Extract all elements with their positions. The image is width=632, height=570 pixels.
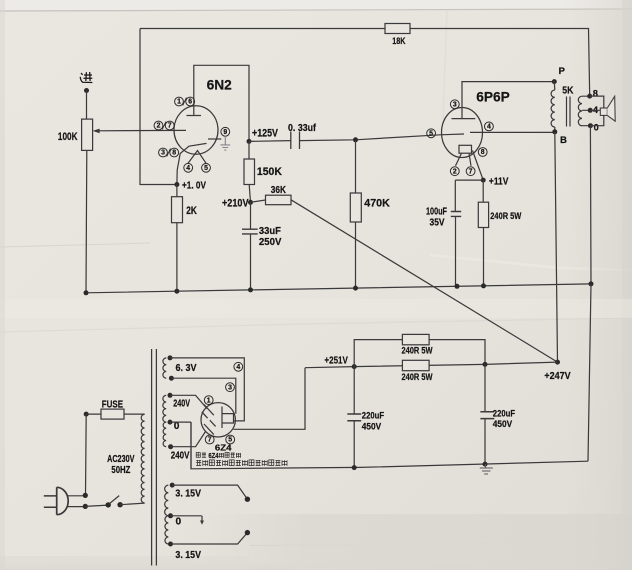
wire +125V node to coupling cap xyxy=(249,140,291,143)
wire 240V top to 6Z4 anode pin 1 xyxy=(170,395,207,408)
OPT node B xyxy=(552,129,557,134)
svg-text:33uF: 33uF xyxy=(259,226,281,237)
capacitor 0.33uf xyxy=(291,132,300,150)
transformer core xyxy=(152,349,157,566)
svg-text:2K: 2K xyxy=(186,205,197,217)
svg-text:220uF: 220uF xyxy=(362,410,385,421)
240V winding (HT secondary) xyxy=(168,393,173,398)
svg-text:150K: 150K xyxy=(257,166,282,178)
svg-text:250V: 250V xyxy=(259,237,282,248)
3.15V heater winding xyxy=(170,483,175,488)
wire +210V to 36K xyxy=(251,200,266,202)
wire: NFB left drop to 6N2 cathode xyxy=(140,29,177,185)
resistor 240R 5W (lower, on rail) xyxy=(402,360,429,370)
wire 100uF to ground bus xyxy=(455,216,457,286)
capacitor 220uF 450V (first) xyxy=(353,367,355,414)
svg-text:+210V: +210V xyxy=(222,197,249,209)
6N2 cathode to +1.0V node xyxy=(177,143,207,184)
svg-text:+11V: +11V xyxy=(489,176,509,187)
resistor 2K xyxy=(172,197,183,223)
input label (jin) xyxy=(80,72,92,83)
pin label 3 xyxy=(226,383,235,392)
ground return right edge xyxy=(588,284,591,461)
resistor 470K xyxy=(350,193,361,222)
svg-text:5: 5 xyxy=(429,131,433,138)
wire +11V to 100uF xyxy=(455,180,483,211)
pin label 4 xyxy=(234,362,243,371)
wire 240V center tap 0 to ground rail xyxy=(170,422,191,469)
svg-text:2: 2 xyxy=(157,123,161,130)
svg-text:6P6P: 6P6P xyxy=(476,88,510,104)
6Z4 anode strokes (upper diode) xyxy=(202,405,214,419)
svg-text:1: 1 xyxy=(177,99,181,106)
svg-text:100uF: 100uF xyxy=(426,206,447,217)
tube 6Z4 envelope xyxy=(201,403,235,437)
svg-text:6N2: 6N2 xyxy=(207,77,232,93)
ground symbol at 6N2 pin 9 xyxy=(220,136,230,150)
tube 6N2 envelope xyxy=(174,106,218,154)
node: junction right of lower 240R xyxy=(483,362,488,367)
svg-text:6: 6 xyxy=(188,99,192,106)
svg-text:35V: 35V xyxy=(430,218,445,229)
resistor 240R 5W (upper) xyxy=(402,334,429,344)
rectifier filament riser to +251V xyxy=(234,368,306,430)
6P6P screen wire to OPT B xyxy=(470,131,555,133)
svg-text:7: 7 xyxy=(168,123,172,130)
svg-text:450V: 450V xyxy=(362,420,382,431)
pin label 5 xyxy=(427,129,436,138)
capacitor 33uF 250V xyxy=(242,229,258,234)
ground bus (main horizontal) xyxy=(86,284,591,293)
6.3V winding xyxy=(168,355,173,360)
pin labels 3/8 xyxy=(159,148,168,157)
pin labels 2/7 xyxy=(154,121,163,130)
svg-text:AC230V: AC230V xyxy=(107,454,135,465)
svg-text:470K: 470K xyxy=(364,197,390,209)
node +11V xyxy=(481,178,486,183)
wire +125V to 150K xyxy=(248,141,250,159)
pot wiper arrow to 6N2 grid xyxy=(99,129,187,131)
svg-text:B: B xyxy=(560,135,567,146)
wire +210V to 33uF xyxy=(250,202,252,229)
svg-text:6. 3V: 6. 3V xyxy=(176,363,197,374)
wire 240R to ground bus xyxy=(483,228,485,286)
capacitor 100uF 35V xyxy=(451,212,461,217)
pin label 7 xyxy=(205,435,214,444)
svg-text:4: 4 xyxy=(236,364,240,371)
svg-text:4: 4 xyxy=(186,165,190,172)
node +247V xyxy=(555,360,560,365)
6N2 plate and wire to +125V node xyxy=(187,65,250,141)
wire 240V bottom to 6Z4 anode pin 7 xyxy=(171,432,206,447)
node +125V xyxy=(247,139,252,144)
pin label 2 xyxy=(450,167,459,176)
parallel loop for second 240R xyxy=(354,340,485,367)
wire: input to volume pot xyxy=(86,91,88,120)
svg-text:8: 8 xyxy=(172,150,176,157)
node +251V xyxy=(352,364,357,369)
pin label 8 xyxy=(478,148,487,157)
speaker taps 8 / 4 / 0 xyxy=(587,94,592,99)
svg-text:100K: 100K xyxy=(58,131,78,143)
wire 6.3V top to 6Z4 filament (pin 4) xyxy=(170,358,244,421)
wire: pot bottom to ground bus xyxy=(85,150,88,292)
svg-text:240R 5W: 240R 5W xyxy=(402,372,433,382)
svg-text:8: 8 xyxy=(593,89,598,99)
svg-text:1: 1 xyxy=(207,397,211,404)
svg-text:3. 15V: 3. 15V xyxy=(175,550,201,561)
mains plug xyxy=(57,487,69,514)
tube 6P6P envelope xyxy=(442,108,483,158)
svg-text:7: 7 xyxy=(469,168,473,175)
pin label 5 xyxy=(226,435,235,444)
wire 33uF to ground bus xyxy=(250,234,252,290)
speaker connection loop xyxy=(590,96,604,126)
6P6P heater legs xyxy=(456,153,472,166)
6N2 heater xyxy=(188,151,206,164)
node: 470K top junction xyxy=(353,137,358,142)
note: two 6Z4 in parallel (line 1) xyxy=(196,453,200,458)
wire speaker 0 tap to ground bus corner xyxy=(589,126,592,284)
svg-text:0: 0 xyxy=(594,123,599,133)
svg-text:3: 3 xyxy=(161,150,165,157)
svg-text:+1. 0V: +1. 0V xyxy=(182,181,206,192)
svg-text:50HZ: 50HZ xyxy=(111,465,130,476)
wire 3.15V top to heater terminal xyxy=(172,485,247,499)
output transformer: node P xyxy=(552,79,557,84)
svg-text:P: P xyxy=(559,66,566,77)
svg-text:5K: 5K xyxy=(562,86,573,97)
svg-text:8: 8 xyxy=(481,149,485,156)
svg-text:9: 9 xyxy=(223,129,227,136)
svg-text:+125V: +125V xyxy=(252,127,278,139)
wire 6.3V bottom to 6Z4 filament (pin 3) xyxy=(171,378,235,414)
pin label 7 xyxy=(466,167,475,176)
pin label 4 xyxy=(184,163,193,172)
svg-text:36K: 36K xyxy=(271,185,287,196)
wire OPT B down to +247V xyxy=(555,132,558,362)
wire 470K to ground bus xyxy=(355,222,357,288)
note line 2 xyxy=(196,460,201,466)
svg-text:220uF: 220uF xyxy=(493,407,516,418)
pin label 5 xyxy=(202,163,211,172)
svg-text:4: 4 xyxy=(487,124,491,131)
pin label 4 xyxy=(485,122,494,131)
svg-text:240R 5W: 240R 5W xyxy=(490,211,521,221)
capacitor 220uF 450V (second) xyxy=(484,364,486,411)
wire to 470K xyxy=(355,140,357,193)
wire 2K to ground bus xyxy=(176,223,178,292)
svg-text:240V: 240V xyxy=(171,450,190,461)
svg-text:450V: 450V xyxy=(493,418,513,429)
svg-text:0: 0 xyxy=(176,517,182,528)
resistor 150K xyxy=(244,159,255,185)
svg-text:5: 5 xyxy=(204,165,208,172)
6N2 pin 9 wire and circle xyxy=(208,138,221,140)
wire: negative-feedback top line xyxy=(140,28,385,30)
speaker xyxy=(600,108,607,115)
svg-text:3. 15V: 3. 15V xyxy=(175,489,201,500)
wire 3.15V bottom to heater terminal xyxy=(171,533,248,544)
pin label 1 xyxy=(204,396,213,405)
wire 150K to +210V xyxy=(249,185,250,203)
6P6P beam plates xyxy=(459,145,472,153)
B+ rail +251V to +247V xyxy=(305,362,558,368)
svg-text:3: 3 xyxy=(228,384,232,391)
6P6P plate and wire to OPT P xyxy=(452,82,555,119)
ground return bottom rail xyxy=(191,422,588,469)
wire plug to fuse xyxy=(84,412,89,417)
svg-text:3: 3 xyxy=(453,102,457,109)
svg-text:240V: 240V xyxy=(173,399,190,410)
svg-text:+251V: +251V xyxy=(324,355,348,366)
pin labels 1/6 xyxy=(175,97,184,106)
wire +11V to 240R xyxy=(482,180,484,202)
svg-text:240R 5W: 240R 5W xyxy=(402,346,433,356)
OPT core xyxy=(567,97,571,127)
potentiometer 100K xyxy=(82,119,93,150)
pin label 3 xyxy=(450,100,459,109)
wire: NFB line to speaker 8-ohm tap xyxy=(410,29,590,97)
6Z4 cathode bar and notch xyxy=(222,407,234,429)
svg-text:0. 33uf: 0. 33uf xyxy=(288,123,317,134)
svg-text:7: 7 xyxy=(208,437,212,444)
OPT secondary coil xyxy=(578,96,582,126)
svg-text:+247V: +247V xyxy=(544,371,570,382)
power switch xyxy=(85,505,108,506)
wire cathode node to 2K xyxy=(176,185,178,197)
svg-text:6Z4: 6Z4 xyxy=(208,453,218,460)
node: input terminal xyxy=(84,88,89,93)
wire coupling cap to 470K node and 6P6P grid xyxy=(300,134,465,141)
node +210V xyxy=(248,200,253,205)
mains transformer primary winding xyxy=(141,414,144,503)
svg-text:18K: 18K xyxy=(392,36,405,46)
resistor 36K xyxy=(266,195,292,205)
OPT primary coil 5K xyxy=(553,82,556,90)
wire: B+ diagonal 36K to +247V xyxy=(291,200,558,362)
6P6P cathode lead to +11V xyxy=(473,151,484,181)
ground symbol on bottom rail xyxy=(480,464,493,474)
3.15V center tap arrow xyxy=(171,516,203,522)
6Z4 anode strokes (lower diode) xyxy=(204,420,216,434)
resistor 240R 5W (6P6P cathode) xyxy=(478,202,488,227)
svg-text:6Z4: 6Z4 xyxy=(215,443,232,453)
resistor 18K xyxy=(385,24,410,34)
svg-text:2: 2 xyxy=(453,168,457,175)
node +1.0V xyxy=(174,182,179,187)
